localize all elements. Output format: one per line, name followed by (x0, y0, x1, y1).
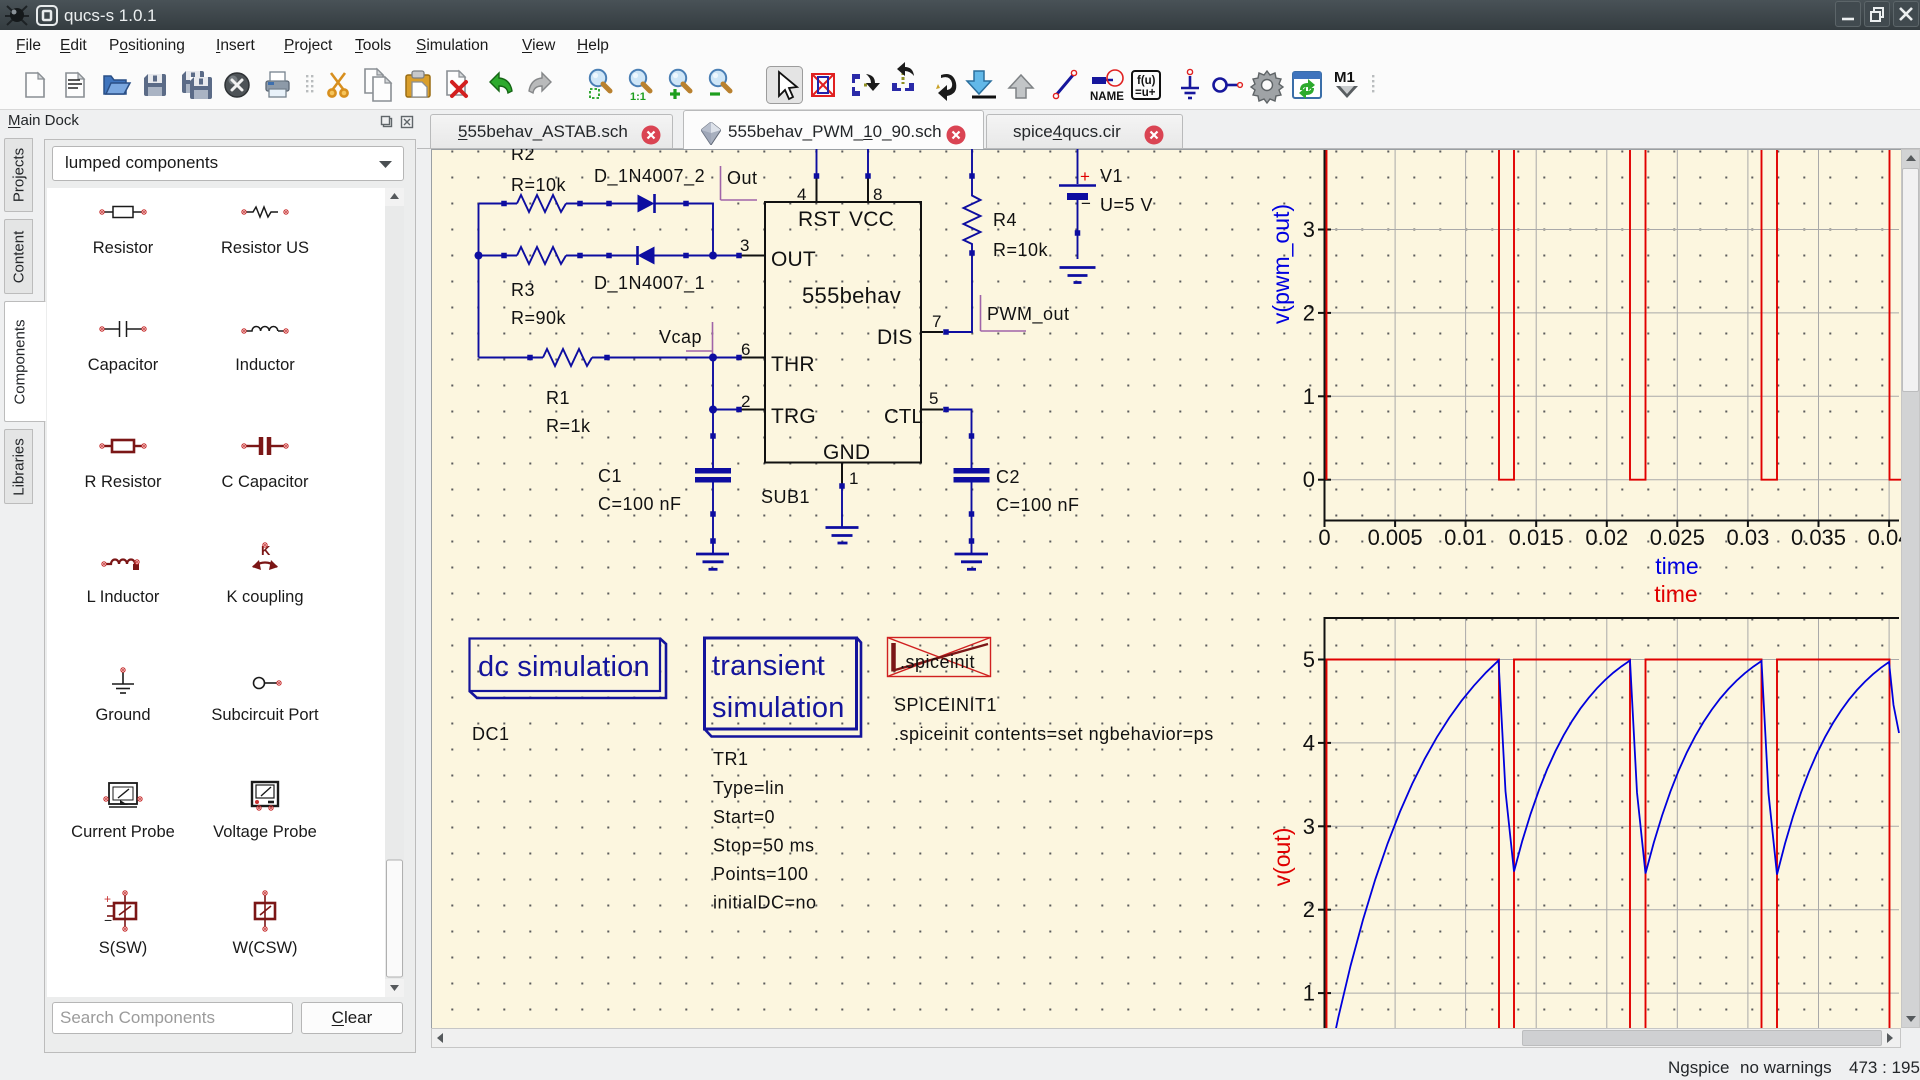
svg-text:R3: R3 (511, 280, 535, 300)
svg-text:simulation: simulation (712, 692, 845, 724)
diode D_1N4007_2 (594, 166, 705, 213)
svg-text:2: 2 (1303, 300, 1315, 325)
resistor R1 (527, 349, 610, 436)
svg-text:5: 5 (1303, 647, 1315, 672)
node Out (721, 166, 758, 200)
ground G1 (696, 538, 729, 569)
svg-text:R2: R2 (511, 149, 535, 164)
delete (447, 71, 466, 96)
svg-text:Start=0: Start=0 (713, 807, 775, 827)
resistor R2 (501, 144, 583, 212)
toolbar (0, 60, 1920, 110)
svg-text:OUT: OUT (771, 248, 816, 271)
close circle (225, 73, 249, 97)
svg-text:Ground: Ground (95, 706, 150, 724)
svg-text:.spiceinit: .spiceinit (900, 652, 975, 672)
svg-text:−: − (104, 912, 112, 928)
svg-text:8: 8 (873, 185, 882, 204)
svg-text:0.03: 0.03 (1726, 525, 1769, 550)
svg-text:0.04: 0.04 (1868, 525, 1901, 550)
svg-text:transient: transient (712, 650, 825, 682)
sep (1372, 75, 1374, 92)
capacitor C1 (598, 433, 731, 517)
wire row1 left (479, 203, 518, 205)
pin 7 DIS wire (921, 253, 972, 335)
svg-text:v(pwm_out): v(pwm_out) (1268, 204, 1294, 324)
zoom out (710, 70, 730, 94)
svg-text:R=1k: R=1k (546, 416, 591, 436)
palette item Capacitor (104, 321, 142, 337)
cut scissors (328, 73, 347, 97)
diode D_1N4007_1 (594, 246, 705, 294)
wire left rail (478, 204, 480, 358)
equation (1132, 71, 1160, 99)
svg-text:DIS: DIS (877, 326, 913, 349)
zoom 1:1 (630, 70, 650, 103)
palette item Ground (112, 672, 134, 693)
wire Vcap down (712, 358, 714, 469)
svg-text:555behav: 555behav (802, 283, 901, 308)
ground G3 under V1 (1060, 268, 1096, 283)
pop up (1009, 75, 1033, 98)
wire row3 (479, 357, 544, 359)
left dock (0, 0, 1920, 1)
wire tool (1053, 70, 1076, 98)
svg-text:C2: C2 (996, 467, 1020, 487)
svg-text:D_1N4007_2: D_1N4007_2 (594, 166, 705, 187)
svg-text:R1: R1 (546, 388, 570, 408)
svg-text:0.01: 0.01 (1444, 525, 1487, 550)
dc simulation DC1 (470, 639, 667, 745)
vertical tabs (4, 138, 33, 212)
transient simulation TR1 (705, 638, 862, 913)
svg-text:CTL: CTL (884, 405, 923, 428)
voltage source V1 (1059, 149, 1153, 259)
wire row1 mid (566, 203, 638, 205)
vertical scrollbar (1901, 149, 1920, 1028)
save (144, 74, 166, 96)
svg-text:M1: M1 (1334, 69, 1355, 86)
pin 8 VCC (865, 149, 882, 204)
palette scrollbar (385, 188, 404, 997)
wire C1 to ground (712, 514, 714, 553)
open folder (104, 76, 130, 94)
dock pane (44, 139, 416, 1053)
svg-text:f(u): f(u) (1137, 75, 1156, 87)
svg-text:V1: V1 (1100, 166, 1123, 186)
zoom in (670, 70, 690, 99)
svg-text:+: + (104, 892, 111, 906)
pin 5 CTL wire (921, 389, 972, 468)
svg-text:3: 3 (1303, 217, 1315, 242)
wire row1 right + drop (655, 204, 714, 256)
wire pin3 stub (736, 236, 765, 258)
svg-text:W(CSW): W(CSW) (232, 939, 297, 957)
op-amp U1 555behav subcircuit SUB1 (761, 202, 923, 507)
svg-text:R4: R4 (993, 210, 1017, 230)
svg-text:5: 5 (929, 389, 938, 408)
svg-text:initialDC=no: initialDC=no (713, 893, 817, 913)
palette item Current Probe (104, 783, 142, 807)
chart v(out) vs time (1269, 618, 1899, 1028)
svg-text:1: 1 (1303, 981, 1315, 1006)
node PWM_out (981, 295, 1070, 331)
wire row2 left (479, 255, 518, 257)
search row (52, 1002, 293, 1034)
pin 4 RST (797, 149, 819, 204)
svg-text:R=90k: R=90k (511, 308, 567, 328)
svg-text:2: 2 (741, 392, 750, 411)
palette item Inductor (242, 327, 288, 334)
port tool (1214, 79, 1243, 92)
spice directive SPICEINIT1 (deactivated) (888, 638, 1214, 745)
display data (1293, 72, 1321, 99)
ground tool (1181, 69, 1199, 98)
svg-text:Stop=50 ms: Stop=50 ms (713, 836, 815, 856)
svg-text:Subcircuit Port: Subcircuit Port (211, 706, 319, 724)
svg-text:R=10k: R=10k (993, 240, 1049, 260)
wire row2 mid (566, 255, 638, 257)
svg-text:Voltage Probe: Voltage Probe (213, 823, 317, 841)
svg-text:0: 0 (1303, 467, 1315, 492)
svg-text:TRG: TRG (771, 405, 816, 428)
svg-text:R=10k: R=10k (511, 175, 567, 195)
svg-text:PWM_out: PWM_out (987, 304, 1070, 325)
resistor R4 (964, 149, 1049, 260)
svg-text:VCC: VCC (849, 208, 894, 231)
push down (967, 71, 996, 97)
palette item R Resistor (100, 440, 146, 452)
svg-text:−: − (1081, 194, 1091, 213)
svg-text:3: 3 (740, 236, 749, 255)
new file (26, 73, 44, 97)
svg-text:Type=lin: Type=lin (713, 778, 785, 798)
svg-text:Inductor: Inductor (235, 356, 295, 374)
svg-text:4: 4 (1303, 730, 1315, 755)
menu bar (0, 30, 1920, 60)
svg-text:0: 0 (1318, 525, 1330, 550)
wire row3 right (592, 357, 739, 359)
svg-text:1: 1 (1303, 384, 1315, 409)
svg-text:Resistor: Resistor (93, 239, 154, 257)
svg-text:.spiceinit contents=set ngbeha: .spiceinit contents=set ngbehavior=ps (894, 724, 1214, 744)
svg-text:GND: GND (823, 441, 870, 464)
palette item W(CSW) (255, 891, 275, 931)
svg-text:v(out): v(out) (1269, 828, 1295, 887)
resistor R3 (501, 247, 583, 328)
rotate ccw (936, 74, 956, 101)
select (pressed) (767, 67, 803, 104)
svg-text:Out: Out (727, 168, 758, 188)
svg-text:Current Probe: Current Probe (71, 823, 175, 841)
svg-text:THR: THR (771, 353, 815, 376)
svg-text:C Capacitor: C Capacitor (221, 473, 309, 491)
svg-text:0.015: 0.015 (1509, 525, 1564, 550)
svg-text:Vcap: Vcap (659, 327, 702, 347)
svg-text:DC1: DC1 (472, 724, 510, 744)
palette item K coupling (252, 543, 278, 570)
palette item C Capacitor (246, 437, 284, 455)
wire pin2 stub (713, 392, 765, 412)
horizontal scrollbar (431, 1028, 1901, 1048)
svg-text:TR1: TR1 (713, 749, 749, 769)
name label tool (1090, 70, 1124, 103)
svg-text:C=100 nF: C=100 nF (996, 495, 1080, 515)
trace v(pwm_out) red square wave (1327, 150, 1902, 480)
trace v(out) red PWM overlay (1327, 660, 1890, 1029)
svg-text:=u+: =u+ (1135, 87, 1156, 99)
svg-text:S(SW): S(SW) (99, 939, 148, 957)
svg-text:Capacitor: Capacitor (88, 356, 159, 374)
svg-text:1: 1 (849, 469, 858, 488)
paste (406, 71, 430, 97)
copy (365, 69, 391, 101)
pin 1 GND + ground (826, 463, 859, 544)
svg-text:0.035: 0.035 (1791, 525, 1846, 550)
status bar (0, 1053, 1920, 1080)
palette item Resistor US (242, 207, 288, 217)
svg-text:RST: RST (798, 208, 841, 231)
svg-text:time: time (1655, 553, 1698, 579)
print (266, 72, 289, 97)
palette item S(SW) (104, 891, 136, 931)
combo box (52, 146, 404, 181)
deactivate (812, 74, 834, 96)
svg-text:3: 3 (1303, 814, 1315, 839)
window title bar (0, 0, 1920, 30)
junction dots (475, 252, 718, 414)
svg-text:Points=100: Points=100 (713, 864, 809, 884)
svg-text:SPICEINIT1: SPICEINIT1 (894, 695, 997, 715)
svg-text:L Inductor: L Inductor (87, 588, 160, 606)
svg-text:K coupling: K coupling (226, 588, 303, 606)
trace v(out) blue sawtooth (1326, 661, 1899, 1077)
mirror X (892, 62, 914, 91)
wire pin6 stub (736, 340, 765, 360)
svg-text:C=100 nF: C=100 nF (598, 494, 682, 514)
mirror Y (852, 74, 880, 96)
document tab bar (417, 148, 1920, 149)
new text file (66, 73, 84, 97)
svg-text:dc simulation: dc simulation (478, 651, 650, 683)
capacitor C2 (954, 433, 1080, 553)
svg-text:U=5 V: U=5 V (1100, 195, 1153, 215)
svg-text:4: 4 (797, 185, 806, 204)
svg-text:SUB1: SUB1 (761, 487, 810, 507)
svg-text:0.025: 0.025 (1650, 525, 1705, 550)
schematic canvas (431, 149, 1901, 1028)
svg-text:6: 6 (741, 340, 750, 359)
palette item Resistor (100, 207, 146, 218)
palette item L Inductor (102, 560, 139, 571)
ground G2 (955, 538, 989, 569)
palette item Voltage Probe (252, 782, 278, 810)
simulate gear (1251, 71, 1283, 103)
palette item Subcircuit Port (254, 678, 282, 689)
svg-text:0.005: 0.005 (1368, 525, 1423, 550)
sep (306, 75, 313, 92)
svg-text:NAME: NAME (1090, 91, 1124, 103)
svg-text:D_1N4007_1: D_1N4007_1 (594, 273, 705, 294)
svg-text:1:1: 1:1 (630, 91, 646, 103)
redo (529, 73, 551, 93)
svg-text:Resistor US: Resistor US (221, 239, 309, 257)
svg-text:2: 2 (1303, 897, 1315, 922)
svg-text:+: + (1080, 167, 1090, 186)
zoom fit (590, 70, 610, 98)
component grid (47, 188, 404, 997)
svg-text:7: 7 (932, 312, 941, 331)
wire row2 right (655, 255, 740, 257)
undo (490, 73, 512, 93)
svg-text:time: time (1654, 581, 1697, 607)
chart v(pwm_out) vs time (1268, 150, 1911, 607)
marker M1 (1334, 69, 1358, 98)
svg-text:0.02: 0.02 (1585, 525, 1628, 550)
svg-text:C1: C1 (598, 466, 622, 486)
node Vcap (659, 322, 713, 356)
save all (182, 71, 212, 99)
svg-text:R Resistor: R Resistor (84, 473, 162, 491)
